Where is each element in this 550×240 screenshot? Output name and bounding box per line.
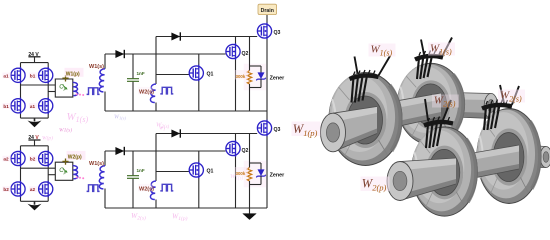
svg-text:W1(p): W1(p)	[66, 72, 80, 78]
svg-text:a1: a1	[30, 104, 36, 109]
svg-text:W1(s): W1(s)	[67, 111, 89, 124]
svg-text:W1(s): W1(s)	[59, 127, 72, 134]
label W1(p)	[292, 122, 321, 137]
toroid core D	[477, 109, 541, 204]
label b1	[29, 73, 38, 79]
shaft stub cap	[484, 93, 498, 118]
shaft left of toroid A	[333, 107, 377, 152]
svg-text:W2(p): W2(p)	[68, 155, 82, 161]
shaft end cap C	[387, 162, 413, 201]
svg-text:b2: b2	[3, 187, 9, 192]
label W2(s) mid	[432, 95, 459, 108]
label a2 lower	[29, 186, 38, 192]
svg-text:a2: a2	[30, 187, 36, 192]
label W1(s) left	[369, 44, 396, 57]
winding on toroid D	[482, 85, 519, 130]
svg-text:W1(s): W1(s)	[114, 115, 126, 121]
svg-text:a2: a2	[3, 157, 9, 162]
label a1 lower	[29, 103, 38, 109]
svg-text:b2: b2	[30, 157, 36, 162]
svg-text:W1(p): W1(p)	[172, 212, 188, 223]
svg-text:b1: b1	[3, 104, 9, 109]
label b2 lower	[3, 186, 12, 192]
svg-text:Drain: Drain	[261, 8, 274, 14]
svg-text:a1: a1	[3, 73, 9, 78]
shaft between A and B	[365, 93, 441, 134]
shaft stub right of toroid B	[431, 92, 491, 119]
svg-text:b1: b1	[30, 73, 36, 78]
svg-text:W(p): W(p)	[42, 135, 53, 142]
winding on toroid C	[424, 99, 453, 148]
label W2(p)	[361, 177, 390, 192]
svg-text:W2(s): W2(s)	[131, 211, 146, 222]
shaft left of toroid C	[400, 158, 456, 201]
label W2(p)	[67, 151, 86, 160]
Drain box	[258, 4, 277, 14]
label a1	[3, 73, 12, 79]
shaft stub right of toroid D	[509, 145, 546, 168]
shaft end cap A	[321, 113, 346, 152]
toroid core C	[412, 127, 478, 216]
winding on toroid A	[350, 56, 391, 103]
label b1 lower	[3, 103, 12, 109]
label W1(p)	[65, 68, 84, 77]
label b2	[29, 156, 38, 162]
winding on toroid B	[415, 38, 452, 80]
shaft cap D	[540, 147, 550, 168]
svg-text:24 V: 24 V	[28, 52, 39, 58]
ground filled	[243, 214, 256, 220]
label W2(s) right	[498, 90, 525, 103]
label W1(s) right	[428, 43, 455, 56]
shaft between C and D	[444, 145, 519, 184]
wire ground stem bottom block	[249, 208, 251, 214]
svg-text:24 V: 24 V	[28, 135, 39, 141]
toroid core B	[397, 63, 464, 144]
toroid core A	[329, 73, 402, 166]
label a2	[3, 156, 12, 162]
